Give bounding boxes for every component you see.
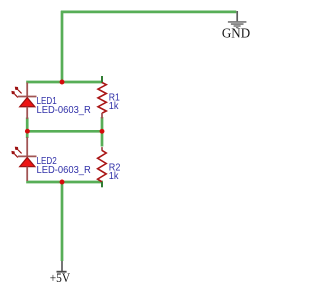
- power +5V pin: [61, 261, 63, 272]
- wire LED2 top stub: [26, 131, 29, 138]
- junction: [100, 129, 105, 134]
- junction: [60, 80, 65, 85]
- ground pin: [236, 11, 238, 21]
- LED LED2: [11, 137, 36, 181]
- svg-text:GND: GND: [222, 26, 251, 41]
- svg-text:1k: 1k: [109, 171, 120, 182]
- wire top rail: [61, 11, 236, 14]
- wire R1 bottom: [101, 117, 104, 131]
- junction: [25, 129, 30, 134]
- resistor R1 bottom pin: [101, 113, 103, 119]
- wire row 3: [27, 130, 102, 133]
- wire vertical to +5V: [61, 182, 64, 261]
- wire vertical feed: [61, 11, 64, 83]
- svg-text:LED-0603_R: LED-0603_R: [37, 165, 91, 176]
- resistor R2 bottom pin stub: [101, 182, 103, 187]
- resistor R1: [98, 83, 106, 114]
- wire LED1 bottom: [26, 118, 29, 132]
- resistor R1 top pin stub: [101, 76, 103, 83]
- resistor R2 top pin: [101, 147, 103, 151]
- svg-text:LED-0603_R: LED-0603_R: [37, 105, 91, 116]
- ground: [228, 21, 247, 28]
- resistor R2: [98, 150, 107, 182]
- svg-text:1k: 1k: [109, 101, 120, 112]
- wire R2 top: [101, 131, 104, 146]
- wire row 4: [26, 181, 103, 184]
- power +5V bar: [57, 271, 67, 273]
- junction: [60, 180, 65, 185]
- LED LED1: [11, 83, 36, 120]
- svg-text:+5V: +5V: [50, 270, 71, 285]
- wire row 2: [26, 81, 102, 84]
